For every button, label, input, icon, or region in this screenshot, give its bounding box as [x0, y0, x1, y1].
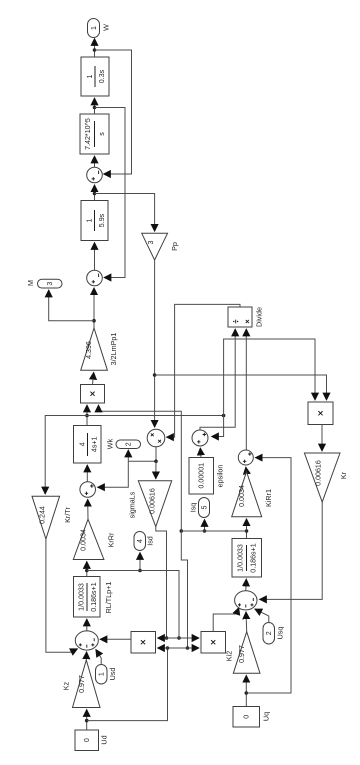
- sum5 circle: [235, 591, 257, 610]
- svg-text:Pp: Pp: [170, 242, 179, 251]
- wire psi line to node, P5 and sum6: [87, 339, 315, 437]
- wire sum5 out to B6: [245, 579, 248, 591]
- gain Kr value 0.00616: [304, 453, 348, 502]
- outport oval M (3): [26, 279, 62, 288]
- svg-text:3: 3: [147, 240, 155, 244]
- svg-text:KiRr1: KiRr1: [264, 489, 273, 507]
- block B3 transfer fcn 1/5.9s: [81, 201, 108, 241]
- wire Isq branch up to Isq oval: [203, 520, 207, 533]
- wire Pp branch to P5 right input: [155, 375, 327, 400]
- wire sum6 out to divide input 1: [200, 329, 235, 430]
- svg-text:Usd: Usd: [108, 668, 117, 681]
- wire P4 out to sum5 lower left: [213, 608, 239, 632]
- svg-text:Ki2: Ki2: [225, 651, 234, 661]
- wire B2 out branch to sum2: [95, 108, 126, 278]
- svg-text:M: M: [26, 280, 35, 286]
- wire sigmaLs out down to product lines: [156, 527, 169, 640]
- round product P2: [147, 429, 165, 447]
- wire gain Pp out to P2 top: [153, 260, 157, 427]
- svg-text:Divide: Divide: [255, 307, 264, 327]
- block B4 transfer fcn 4/4s+1: [74, 426, 102, 464]
- svg-text:1: 1: [86, 74, 94, 78]
- sum7 circle: [238, 450, 253, 465]
- svg-text:Kr/Tr: Kr/Tr: [63, 507, 72, 523]
- wire gain Kr/Tr out to sum4: [46, 539, 78, 652]
- svg-text:1: 1: [85, 218, 93, 222]
- sum1 circle: [87, 167, 103, 183]
- wire P2 out junction to Wk oval and sum3 right: [98, 447, 158, 487]
- source block Ud value 0: [75, 730, 109, 751]
- wire B5 out to gain KrRr with Isd branch: [85, 562, 181, 640]
- svg-text:0.977: 0.977: [78, 675, 86, 693]
- svg-text:KrRr: KrRr: [107, 532, 116, 547]
- product block P4: [201, 632, 226, 654]
- wire gain Kz out to sum4 bottom: [85, 652, 87, 660]
- wire gain KiRr1 out to sum7: [245, 467, 248, 472]
- wire sum7 out to divide input 2: [245, 329, 247, 450]
- wire sum1 out to B2: [94, 156, 96, 167]
- product block P1: [81, 385, 105, 404]
- svg-text:Ud: Ud: [100, 735, 109, 744]
- svg-text:0: 0: [243, 715, 251, 719]
- sum3 circle: [80, 482, 96, 498]
- inport oval Usq (2): [263, 623, 285, 645]
- wire gain KrRr out to sum3: [87, 499, 89, 519]
- wire P3 out to sum4 right: [100, 638, 131, 640]
- block B2 transfer fcn 7.42*10^5/s: [80, 114, 109, 154]
- gain KrRr value 0.0034: [73, 519, 115, 559]
- svg-text:Isd: Isd: [146, 536, 155, 546]
- wire B1 out to W oval: [93, 39, 97, 58]
- wire Usq oval to sum5 lower right: [255, 609, 269, 623]
- constant block epsilon 0.00001: [189, 458, 225, 495]
- svg-text:5: 5: [200, 505, 208, 509]
- gain Ki2 value 0.977: [225, 632, 261, 674]
- gain sigmaLs value 0.00616: [128, 481, 172, 527]
- svg-text:2: 2: [265, 631, 273, 635]
- svg-text:3: 3: [46, 282, 54, 286]
- block B6 transfer fcn 1/0.0033 0.186s+1: [232, 539, 262, 578]
- product block P5: [308, 402, 333, 425]
- wire B6 out to gain KiRr1 with Isq branch line: [181, 519, 248, 539]
- wire psi branch to gain Kr/Tr: [45, 416, 87, 495]
- wire Isq line to P1 right input: [99, 405, 190, 650]
- outport oval Isq (5): [189, 498, 210, 518]
- wire W feedback to sum1: [95, 50, 132, 174]
- wire Uq branch up to sum7 right: [246, 458, 291, 693]
- svg-text:0.186s+1: 0.186s+1: [90, 582, 98, 611]
- sum6 circle: [192, 430, 208, 446]
- outport oval W (1): [88, 19, 111, 38]
- svg-text:3/2LmPp1: 3/2LmPp1: [109, 333, 118, 366]
- svg-text:1/0.0033: 1/0.0033: [236, 544, 244, 572]
- svg-text:Kr: Kr: [339, 471, 348, 479]
- svg-text:1/0.0033: 1/0.0033: [77, 583, 85, 611]
- gain KiRr1 value 0.0034: [232, 472, 273, 517]
- svg-text:epsilon: epsilon: [216, 465, 225, 488]
- svg-text:s: s: [98, 132, 106, 136]
- svg-text:4: 4: [78, 442, 86, 446]
- source block Uq value 0: [233, 707, 271, 728]
- svg-text:4s+1: 4s+1: [90, 436, 98, 452]
- svg-text:7.42*10^5: 7.42*10^5: [84, 118, 92, 150]
- svg-text:Wk: Wk: [106, 438, 115, 449]
- wire sum4 out to B5: [86, 619, 88, 631]
- svg-text:0.244: 0.244: [38, 506, 46, 524]
- svg-text:5.9s: 5.9s: [98, 213, 106, 227]
- wire B3 out to sum1: [93, 185, 97, 201]
- svg-text:0: 0: [83, 738, 91, 742]
- svg-text:sigmaLs: sigmaLs: [128, 491, 137, 518]
- wire epsilon out to sum6: [199, 448, 202, 458]
- svg-text:2: 2: [125, 442, 133, 446]
- sum4 circle: [75, 631, 98, 650]
- svg-text:1: 1: [90, 26, 98, 30]
- wire divide out to P2 right input: [167, 304, 241, 437]
- sum2 circle: [87, 270, 103, 286]
- svg-text:0.977: 0.977: [238, 645, 246, 663]
- wire branch to gain Pp: [95, 194, 155, 232]
- wire Uq source to gain Ki2: [245, 675, 249, 706]
- svg-text:0.3s: 0.3s: [98, 69, 106, 83]
- gain 4.396 label 3/2LmPp1: [81, 328, 118, 370]
- wire Isd branch up to Isd oval: [138, 553, 142, 573]
- svg-text:4.396: 4.396: [85, 341, 93, 359]
- wire gain 4.396 out to sum2: [92, 288, 96, 328]
- wire gain Kr out to sum5 right: [260, 502, 323, 599]
- wire B4 out to P1 left input: [85, 405, 89, 426]
- svg-text:0.00616: 0.00616: [314, 460, 322, 486]
- wire B2 out to B1: [93, 98, 97, 114]
- svg-text:Usq: Usq: [276, 627, 285, 640]
- svg-text:0.0034: 0.0034: [238, 485, 246, 507]
- svg-text:1: 1: [97, 672, 105, 676]
- gain Pp value 3: [142, 233, 179, 260]
- wire Ud source to gain Kz: [85, 710, 89, 731]
- divide block: [228, 307, 264, 327]
- gain Kr/Tr value 0.244: [32, 496, 72, 539]
- wire sum2 out to B3: [94, 243, 96, 271]
- wire sum3 out to B4: [86, 465, 88, 482]
- svg-text:RL/TLp+1: RL/TLp+1: [104, 582, 113, 614]
- wire Usd oval to sum4 lower right: [96, 650, 101, 665]
- gain Kz value 0.977: [62, 660, 101, 708]
- outport oval Isd (4): [134, 532, 155, 551]
- block B5 transfer fcn 1/0.0033 0.186s+1 label RL/TLp+1: [74, 577, 114, 618]
- wire P2 out to gain sigmaLs: [155, 461, 157, 479]
- svg-text:0.00001: 0.00001: [197, 463, 205, 489]
- svg-text:0.0034: 0.0034: [79, 529, 87, 551]
- svg-text:0.186s+1: 0.186s+1: [249, 543, 257, 572]
- svg-text:Uq: Uq: [262, 712, 271, 721]
- product block P3: [131, 632, 156, 654]
- svg-text:0.00616: 0.00616: [148, 488, 156, 514]
- wire branch to outport M: [49, 290, 94, 321]
- wire product P1 out to gain 4.396: [93, 372, 94, 384]
- wire upper product line into P3 and P4: [158, 637, 200, 639]
- outport oval Wk (2): [106, 438, 141, 449]
- wire lower product line into P3 and P4: [158, 647, 200, 649]
- wire Ud branch to product line lower: [87, 646, 170, 720]
- svg-text:Kz: Kz: [62, 681, 71, 690]
- svg-text:Isq: Isq: [189, 503, 198, 513]
- inport oval Usd (1): [96, 665, 118, 685]
- block B1 transfer fcn 1/0.3s: [81, 57, 109, 96]
- svg-text:4: 4: [136, 539, 144, 543]
- wire gain Ki2 out to sum5 bottom: [245, 612, 248, 632]
- svg-text:W: W: [102, 24, 111, 31]
- wire P5 out to gain Kr: [321, 425, 323, 452]
